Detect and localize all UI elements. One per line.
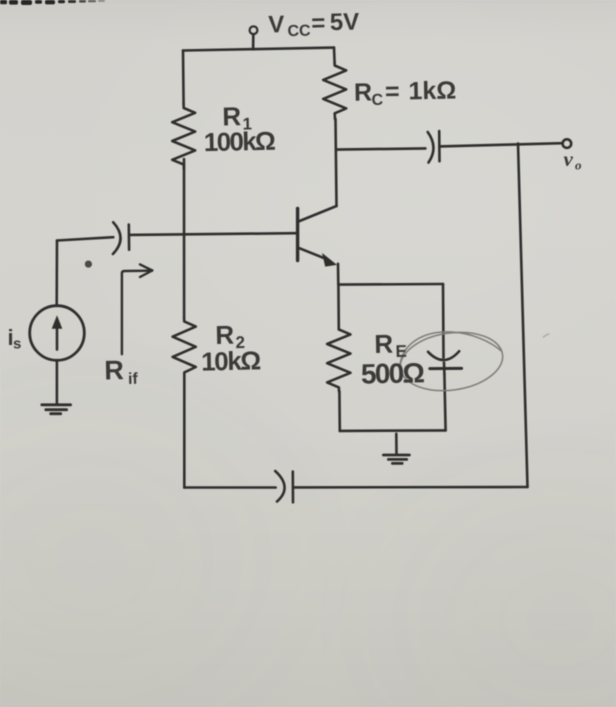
svg-text:v: v	[564, 147, 574, 171]
svg-text:CC: CC	[287, 23, 311, 41]
svg-text:10kΩ: 10kΩ	[201, 345, 262, 376]
svg-text:=: =	[385, 78, 400, 106]
svg-text:C: C	[371, 92, 383, 109]
svg-text:o: o	[575, 158, 582, 173]
svg-text:if: if	[128, 371, 139, 388]
svg-text:100kΩ: 100kΩ	[204, 126, 277, 158]
svg-text:V: V	[268, 11, 285, 38]
svg-text:R: R	[374, 329, 394, 359]
svg-text:5V: 5V	[329, 8, 359, 36]
svg-text:R: R	[354, 78, 373, 106]
svg-text:s: s	[13, 336, 21, 353]
svg-text:=: =	[311, 10, 326, 37]
svg-text:R: R	[104, 355, 124, 385]
svg-text:500Ω: 500Ω	[361, 357, 426, 389]
svg-text:1kΩ: 1kΩ	[408, 77, 456, 106]
